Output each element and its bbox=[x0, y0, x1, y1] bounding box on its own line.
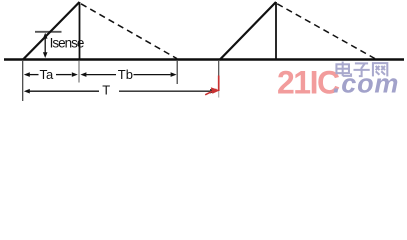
T dimension left arrowhead bbox=[24, 89, 30, 94]
svg-text:.com: .com bbox=[333, 68, 399, 98]
Isense level bar bbox=[35, 31, 62, 33]
triangle 2 dashed decay bbox=[277, 4, 375, 59]
T dimension left shaft bbox=[30, 90, 100, 92]
red annotation arrow tail bbox=[205, 89, 216, 95]
triangle 1 dashed decay bbox=[81, 4, 177, 59]
red annotation vertical segment bbox=[218, 76, 220, 92]
triangle 1 falling edge bbox=[79, 2, 81, 60]
svg-text:T: T bbox=[102, 83, 110, 98]
Ta dimension right shaft bbox=[56, 74, 72, 76]
Isense arrowhead down bbox=[43, 52, 48, 58]
red annotation arrowhead bbox=[211, 87, 220, 94]
Ta dimension left arrowhead bbox=[24, 72, 30, 77]
marker tick at end of Tb (x=177) bbox=[176, 61, 178, 84]
marker tick at t0 (x=22.5) bbox=[22, 61, 24, 101]
triangle 1 rising edge bbox=[23, 2, 80, 60]
Ta dimension left shaft bbox=[30, 74, 39, 76]
Isense arrowhead up bbox=[43, 33, 48, 39]
Tb dimension left arrowhead bbox=[80, 72, 86, 77]
Ta dimension right arrowhead bbox=[72, 72, 78, 77]
marker tick at period T end (x=218.6) gray part bbox=[218, 61, 220, 76]
marker tick at end of Ta (x=79) bbox=[78, 61, 80, 83]
watermark chinese char 子 bbox=[354, 63, 370, 76]
T dimension right arrowhead (black) bbox=[210, 89, 216, 94]
triangle 2 rising edge bbox=[220, 2, 277, 60]
T dimension right shaft bbox=[119, 90, 210, 92]
watermark chinese char 网 bbox=[373, 63, 387, 76]
svg-text:Tb: Tb bbox=[118, 67, 133, 82]
triangle 2 falling edge bbox=[275, 2, 277, 60]
svg-text:Ta: Ta bbox=[40, 67, 55, 82]
svg-text:21IC: 21IC bbox=[277, 65, 340, 101]
Tb dimension right shaft bbox=[134, 74, 171, 76]
Tb dimension left shaft bbox=[86, 74, 116, 76]
axis (time axis) bbox=[4, 58, 404, 60]
watermark chinese char 电 bbox=[336, 62, 351, 76]
Tb dimension right arrowhead bbox=[171, 72, 177, 77]
marker tick lower light part (x=218.7) bbox=[218, 91, 220, 98]
Isense arrow shaft bbox=[44, 36, 46, 54]
